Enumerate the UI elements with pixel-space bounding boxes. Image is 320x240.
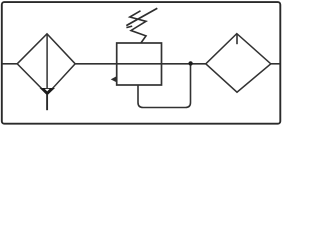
lubricator drop: short line below top vertex <box>236 35 238 45</box>
drain: filled triangle with white notch at filter bottom <box>40 88 55 95</box>
wire: main flow line from filter outlet through regulator to junction <box>74 63 191 65</box>
filter: diamond body <box>17 34 75 94</box>
lubricator: diamond body <box>206 34 271 93</box>
wire: main flow line from left border to filter inlet <box>3 63 19 65</box>
wire: pilot feedback loop from regulator bottom to junction <box>138 64 191 108</box>
adjustment arrow: diagonal line through spring <box>126 8 157 27</box>
regulator: body box <box>117 43 162 85</box>
wire: main flow line from lubricator outlet to right border <box>270 63 280 65</box>
junction: node dot on main line <box>188 61 192 65</box>
wire: main flow line from junction to lubricator inlet <box>190 63 207 65</box>
spring: adjustment zigzag above regulator <box>130 11 146 43</box>
wire: drain line below filter <box>46 94 48 110</box>
filter element: vertical center line <box>46 34 48 94</box>
relief arrow: small arrowhead on regulator left edge <box>111 76 117 82</box>
